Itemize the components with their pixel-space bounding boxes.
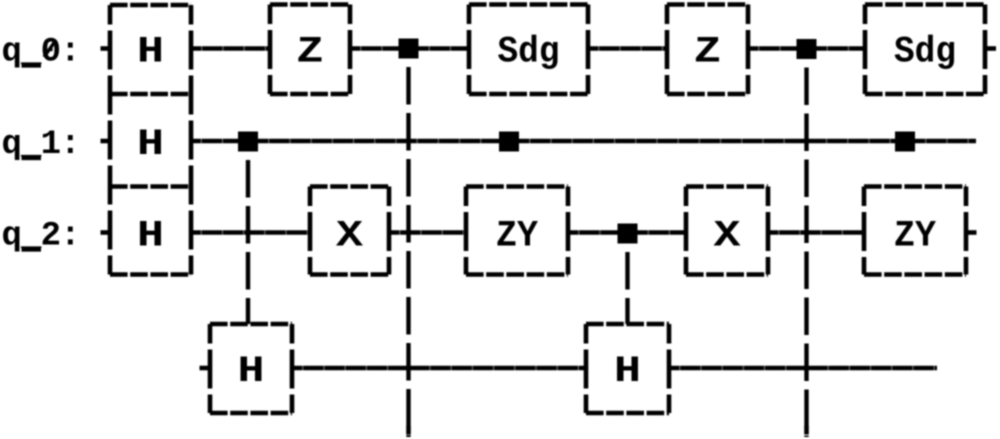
- wire q2 segment ZY to control: [568, 230, 618, 235]
- control line q2 to aux H: [625, 244, 629, 325]
- wire q2 right stub: [966, 230, 977, 235]
- H gate column box q0-q2: [110, 3, 191, 8]
- wire q0 segment Sdg to Z: [588, 46, 667, 51]
- wire q0 segment H to Z: [191, 46, 270, 51]
- gate Z2 q0 box: [667, 2, 748, 7]
- svg-text:Z: Z: [694, 32, 721, 74]
- wire q1 segment control2 to control3: [519, 139, 895, 144]
- wire q0 segment control to Sdg: [817, 46, 866, 51]
- gate X2 q2 box: [686, 184, 768, 189]
- wire q1 segment control3 to end: [915, 139, 976, 144]
- gate X1 q2 box: [310, 184, 389, 189]
- svg-text:Z: Z: [297, 32, 324, 74]
- wire q0 segment control to Sdg: [419, 46, 470, 51]
- control line q0 crossing down: [406, 59, 410, 438]
- wire aux left stub: [200, 366, 211, 371]
- svg-text:Sdg: Sdg: [894, 32, 956, 74]
- wire q2 segment H to X: [191, 230, 311, 235]
- wire q0 left stub: [101, 46, 111, 51]
- wire q1 segment control1 to control2: [258, 139, 499, 144]
- svg-text:ZY: ZY: [496, 216, 538, 258]
- wire q0 segment Z to control: [748, 46, 797, 51]
- svg-text:X: X: [336, 216, 364, 258]
- gate Z1 q0 box: [270, 2, 350, 7]
- wire q0 segment Z to control: [350, 46, 399, 51]
- control q1 dot3: [895, 132, 915, 152]
- wire aux segment H to H: [292, 366, 586, 371]
- wire q2 segment X to ZY: [768, 230, 864, 235]
- wire aux segment H to end: [669, 366, 937, 371]
- svg-text:Sdg: Sdg: [498, 32, 560, 74]
- control q2 dot: [618, 224, 638, 244]
- wire q2 segment X to ZY: [389, 230, 466, 235]
- control q0 dot1: [399, 39, 419, 59]
- underscore of q_0: [22, 63, 42, 67]
- control q1 dot2: [499, 132, 519, 152]
- svg-text:H: H: [614, 351, 641, 393]
- gate ZY2 q2 box: [864, 184, 966, 189]
- control q1 dot1: [238, 132, 258, 152]
- wire q1 left stub: [101, 139, 111, 144]
- wire q2 segment control to X: [638, 230, 687, 235]
- svg-text:H: H: [137, 216, 164, 258]
- svg-text:H: H: [137, 124, 164, 166]
- svg-text:ZY: ZY: [894, 216, 936, 258]
- control line q1 dot1 to aux H: [246, 152, 250, 325]
- control line q0 dot2 crossing down: [804, 59, 808, 437]
- gate ZY1 q2 box: [466, 184, 568, 189]
- svg-text:H: H: [137, 32, 164, 74]
- wire q1 segment H to control1: [191, 139, 239, 144]
- wire q2 left stub: [101, 230, 111, 235]
- wire q0 right stub: [985, 46, 996, 51]
- slash of zero in q_0: [44, 40, 56, 57]
- svg-text:H: H: [238, 351, 265, 393]
- underscore of q_1: [22, 156, 42, 160]
- control q0 dot2: [797, 39, 817, 59]
- gate Sdg2 q0 box: [865, 2, 985, 7]
- gate H aux2 box: [586, 322, 669, 327]
- underscore of q_2: [22, 247, 42, 251]
- gate Sdg1 q0 box: [469, 2, 588, 7]
- gate H aux1 box: [210, 322, 292, 327]
- svg-text:X: X: [714, 216, 742, 258]
